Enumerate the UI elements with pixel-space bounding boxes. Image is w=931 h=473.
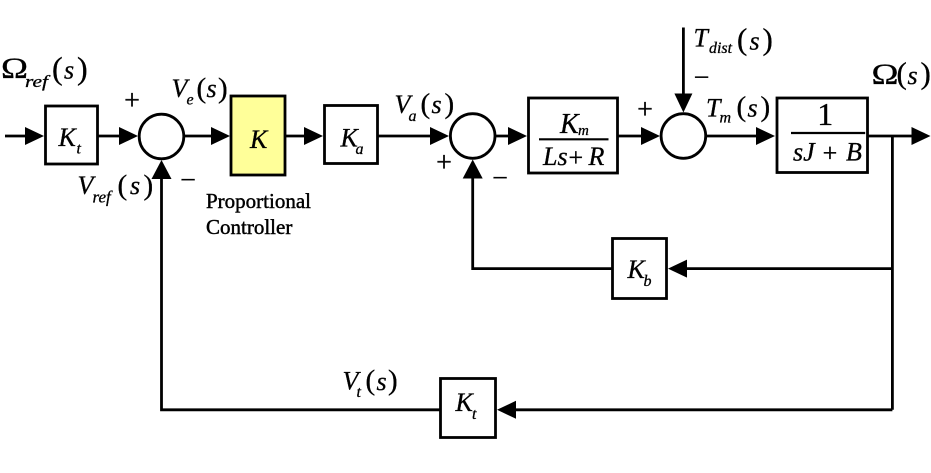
svg-text:t: t bbox=[357, 384, 362, 401]
arrowhead up into sum1 bbox=[152, 160, 172, 179]
svg-text:a: a bbox=[356, 141, 364, 158]
wire Kb to sum2 (left then up) bbox=[473, 173, 612, 269]
svg-text:ref: ref bbox=[25, 72, 51, 91]
arrowhead into load block bbox=[756, 127, 775, 145]
svg-text:(: ( bbox=[737, 21, 747, 56]
svg-text:): ) bbox=[388, 365, 398, 397]
wire sum3 to load block bbox=[706, 135, 761, 138]
svg-text:): ) bbox=[921, 56, 931, 91]
svg-text:b: b bbox=[644, 273, 652, 290]
summing junction sum1 bbox=[139, 114, 184, 159]
svg-text:a: a bbox=[409, 108, 417, 125]
caption Proportional Controller bbox=[206, 189, 311, 239]
svg-text:): ) bbox=[77, 50, 88, 86]
block K proportional controller (yellow) bbox=[231, 96, 285, 175]
svg-text:t: t bbox=[77, 141, 82, 158]
svg-text:+: + bbox=[436, 148, 452, 179]
block Kt2 (tachometer gain) bbox=[441, 379, 496, 438]
arrowhead into Kt2 bbox=[497, 401, 516, 419]
svg-text:(: ( bbox=[737, 91, 747, 123]
wire Kt2 to sum1 (left then up) bbox=[162, 173, 441, 410]
svg-text:dist: dist bbox=[709, 40, 733, 57]
svg-text:s: s bbox=[64, 56, 74, 85]
node label Vt(s) bbox=[343, 365, 398, 402]
svg-text:B: B bbox=[846, 138, 862, 167]
svg-text:s: s bbox=[432, 90, 442, 119]
wire K to Ka bbox=[286, 135, 309, 138]
svg-text:+: + bbox=[637, 95, 653, 126]
svg-text:(: ( bbox=[118, 170, 128, 202]
wire branch down from output node bbox=[891, 136, 894, 410]
svg-text:−: − bbox=[492, 163, 508, 194]
wire Ka to sum2 bbox=[378, 135, 435, 138]
node label Ve(s) bbox=[172, 73, 228, 109]
block Km/(Ls+R) electrical bbox=[529, 98, 618, 173]
block Kb (back-emf gain) bbox=[613, 239, 667, 299]
svg-text:T: T bbox=[694, 24, 710, 53]
svg-text:1: 1 bbox=[817, 96, 833, 132]
svg-text:): ) bbox=[763, 21, 773, 56]
svg-text:R: R bbox=[588, 142, 605, 171]
arrowhead into Ka bbox=[304, 127, 323, 145]
svg-text:): ) bbox=[445, 88, 455, 120]
svg-text:K: K bbox=[249, 125, 269, 154]
svg-text:Controller: Controller bbox=[206, 215, 292, 239]
svg-text:t: t bbox=[472, 406, 477, 423]
summing junction sum3 bbox=[661, 114, 706, 159]
wire feedback to Kb bbox=[682, 267, 892, 270]
svg-text:Ls: Ls bbox=[542, 142, 568, 171]
arrowhead into Kb bbox=[668, 260, 687, 278]
wire Kt1 to sum1 bbox=[98, 135, 124, 138]
svg-text:−: − bbox=[180, 165, 196, 196]
arrowhead into sum3 bbox=[641, 127, 660, 145]
svg-text:ref: ref bbox=[93, 188, 114, 207]
wire sum2 to motor block bbox=[495, 135, 513, 138]
node label Vref(s) bbox=[78, 170, 154, 207]
svg-text:s: s bbox=[908, 61, 918, 90]
wire output bbox=[868, 135, 917, 138]
arrowhead output bbox=[912, 127, 931, 145]
node label Va(s) bbox=[395, 88, 455, 125]
svg-text:(: ( bbox=[897, 56, 907, 91]
block Kt1 (tachometer gain) bbox=[46, 106, 98, 164]
svg-text:e: e bbox=[187, 92, 194, 109]
svg-text:+: + bbox=[124, 86, 140, 117]
wire bottom feedback to Kt2 bbox=[511, 408, 892, 411]
block 1/(sJ+B) mechanical bbox=[777, 96, 868, 172]
arrowhead into K bbox=[211, 127, 230, 145]
svg-text:): ) bbox=[218, 73, 228, 105]
svg-text:Ω: Ω bbox=[872, 58, 899, 91]
svg-text:−: − bbox=[694, 63, 710, 94]
svg-text:(: ( bbox=[52, 50, 63, 86]
svg-text:s: s bbox=[750, 27, 760, 56]
svg-text:m: m bbox=[578, 123, 589, 139]
svg-text:K: K bbox=[58, 123, 78, 152]
arrowhead up into sum2 bbox=[463, 160, 483, 179]
arrowhead into sum2 bbox=[430, 127, 449, 145]
svg-text:(: ( bbox=[197, 73, 207, 105]
svg-text:(: ( bbox=[366, 365, 376, 397]
svg-text:s: s bbox=[130, 171, 140, 200]
arrowhead into motor block bbox=[508, 127, 527, 145]
svg-text:m: m bbox=[720, 110, 732, 127]
wire input from left bbox=[5, 135, 30, 138]
svg-text:+: + bbox=[823, 139, 838, 168]
node label Tm(s) bbox=[706, 91, 770, 127]
node label Tdist(s) bbox=[694, 21, 773, 57]
summing junction sum2 bbox=[450, 114, 495, 159]
svg-text:s: s bbox=[207, 74, 217, 103]
arrowhead into Kt1 bbox=[25, 127, 44, 145]
wire motor block to sum3 bbox=[618, 135, 646, 138]
wire sum1 to K bbox=[184, 135, 216, 138]
svg-text:K: K bbox=[559, 109, 580, 140]
arrowhead down into sum3 bbox=[674, 94, 692, 113]
svg-text:): ) bbox=[144, 170, 154, 202]
svg-text:Proportional: Proportional bbox=[206, 189, 311, 213]
svg-text:s: s bbox=[748, 94, 758, 123]
wire Tdist vertical into sum3 bbox=[682, 28, 685, 100]
svg-text:s: s bbox=[377, 367, 387, 396]
node label Omega(s) bbox=[872, 56, 931, 92]
svg-text:sJ: sJ bbox=[793, 138, 816, 167]
svg-text:+: + bbox=[568, 143, 583, 172]
node label Omega_ref(s) bbox=[1, 50, 88, 91]
arrowhead into sum1 bbox=[119, 127, 138, 145]
svg-text:): ) bbox=[761, 91, 771, 123]
svg-text:(: ( bbox=[421, 88, 431, 120]
svg-text:Ω: Ω bbox=[1, 52, 28, 85]
block Ka (amplifier gain) bbox=[325, 106, 378, 164]
